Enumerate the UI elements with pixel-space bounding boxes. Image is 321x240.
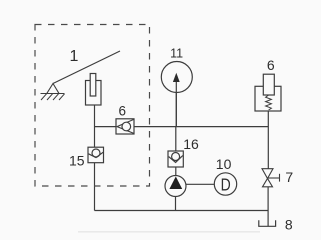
valve 7 handle bar — [279, 174, 281, 182]
svg-text:16: 16 — [183, 136, 199, 152]
svg-text:1: 1 — [70, 48, 79, 65]
check valve 15 seat — [89, 152, 104, 157]
check valve 16 body — [168, 151, 183, 167]
check valve 6 seat — [117, 120, 134, 134]
wire main horizontal line — [95, 126, 269, 128]
tank 8 — [259, 220, 276, 226]
svg-text:10: 10 — [216, 156, 232, 172]
wire valve7-to-tank — [267, 187, 269, 226]
pivot ground line — [41, 93, 65, 95]
wire relief-valve-to-valve7 (right vertical) — [267, 111, 269, 169]
check valve 16 ball — [172, 153, 180, 161]
pivot ground hatching — [41, 94, 65, 100]
relief valve 6 plunger — [263, 74, 274, 95]
pump 10 body — [165, 176, 186, 197]
wire pump-to-bottom — [175, 197, 177, 211]
pump 10 flow triangle — [169, 177, 182, 190]
svg-text:6: 6 — [267, 57, 275, 73]
svg-text:7: 7 — [285, 169, 293, 185]
svg-text:8: 8 — [285, 217, 293, 233]
wire cylinder-to-bottom (left vertical) — [94, 105, 96, 211]
motor D body — [214, 173, 236, 195]
svg-text:6: 6 — [119, 104, 127, 119]
shut-off valve 7 upper triangle — [262, 169, 273, 179]
gauge 11 stem — [175, 81, 177, 127]
check valve 15 ball — [92, 149, 100, 157]
check valve 6 (left) body — [116, 119, 134, 134]
faint scan smudge — [78, 231, 260, 233]
svg-text:D: D — [221, 176, 231, 195]
relief valve 6 (right) outer body — [255, 86, 281, 111]
cylinder rod — [90, 74, 96, 97]
pressure gauge 11 body — [161, 62, 192, 93]
relief valve 6 spring — [266, 95, 272, 110]
cylinder body — [86, 81, 102, 106]
check valve 16 seat — [169, 156, 183, 163]
svg-text:11: 11 — [170, 46, 183, 60]
dashed enclosure box — [35, 25, 150, 187]
wire pump-to-motor — [186, 183, 215, 185]
shut-off valve 7 lower triangle — [263, 179, 273, 187]
svg-text:15: 15 — [69, 152, 85, 168]
pivot triangle — [47, 84, 59, 94]
gauge 11 arrowhead — [173, 73, 180, 82]
valve 7 stem — [268, 177, 280, 179]
lever 1 — [53, 51, 120, 84]
wire junction-to-pump vertical — [175, 127, 177, 176]
wire gauge branch vertical — [175, 92, 177, 127]
check valve 15 body — [88, 147, 104, 163]
check valve 6 ball — [122, 122, 131, 131]
wire bottom return line — [95, 210, 269, 212]
